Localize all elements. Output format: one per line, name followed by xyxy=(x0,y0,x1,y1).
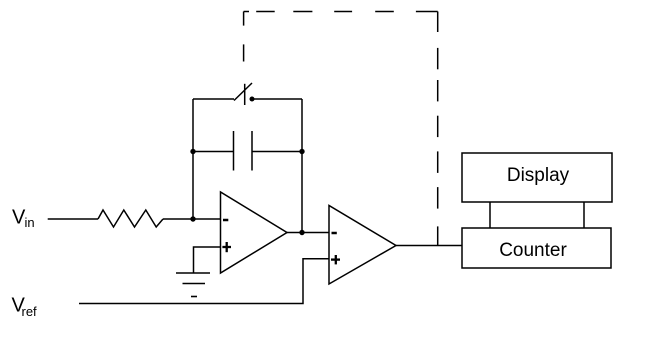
pin U2 non-inverting marker xyxy=(331,255,340,264)
block Counter box xyxy=(462,228,611,268)
switch S1 actuator dash xyxy=(244,84,246,105)
ground xyxy=(176,273,210,297)
wire counter-display connector left xyxy=(489,202,491,228)
resistor R1 xyxy=(98,210,163,227)
wire dashed control left vertical xyxy=(243,12,245,62)
op-amp U1 integrator xyxy=(221,192,288,273)
wire Vref to comparator non-inverting input xyxy=(79,259,329,304)
block Display box xyxy=(462,153,612,202)
node integrator output junction xyxy=(299,230,304,235)
wire switch left lead xyxy=(193,98,234,100)
node capacitor right junction xyxy=(299,149,304,154)
pin U1 inverting marker xyxy=(223,219,228,222)
wire right feedback vertical xyxy=(301,99,303,233)
node junction input summing xyxy=(190,216,195,221)
pin U1 non-inverting marker xyxy=(222,242,231,252)
switch S1 arm xyxy=(234,83,252,101)
node Vin label xyxy=(12,207,35,231)
wire integrator output xyxy=(287,232,329,234)
node capacitor left junction xyxy=(190,149,195,154)
capacitor C1 plates xyxy=(234,131,253,171)
node switch right contact xyxy=(250,97,255,102)
wire Vin input xyxy=(48,218,98,220)
wire left feedback vertical xyxy=(192,99,194,219)
svg-text:Counter: Counter xyxy=(499,240,567,261)
wire switch right lead xyxy=(252,98,302,100)
wire comparator output to counter xyxy=(396,245,462,247)
wire resistor to integrator inverting input xyxy=(163,218,221,220)
wire counter-display connector right xyxy=(583,202,585,228)
op-amp U2 comparator xyxy=(329,206,396,285)
wire dashed control top horizontal xyxy=(244,11,438,13)
wire capacitor right lead xyxy=(252,151,302,153)
pin U2 inverting marker xyxy=(332,232,337,235)
wire dashed control right vertical xyxy=(437,12,439,247)
wire capacitor left lead xyxy=(193,151,234,153)
wire U1 non-inverting input xyxy=(194,247,221,273)
svg-text:in: in xyxy=(25,215,35,230)
svg-text:Display: Display xyxy=(507,165,570,186)
svg-text:ref: ref xyxy=(22,304,38,319)
node Vref label xyxy=(12,295,38,320)
